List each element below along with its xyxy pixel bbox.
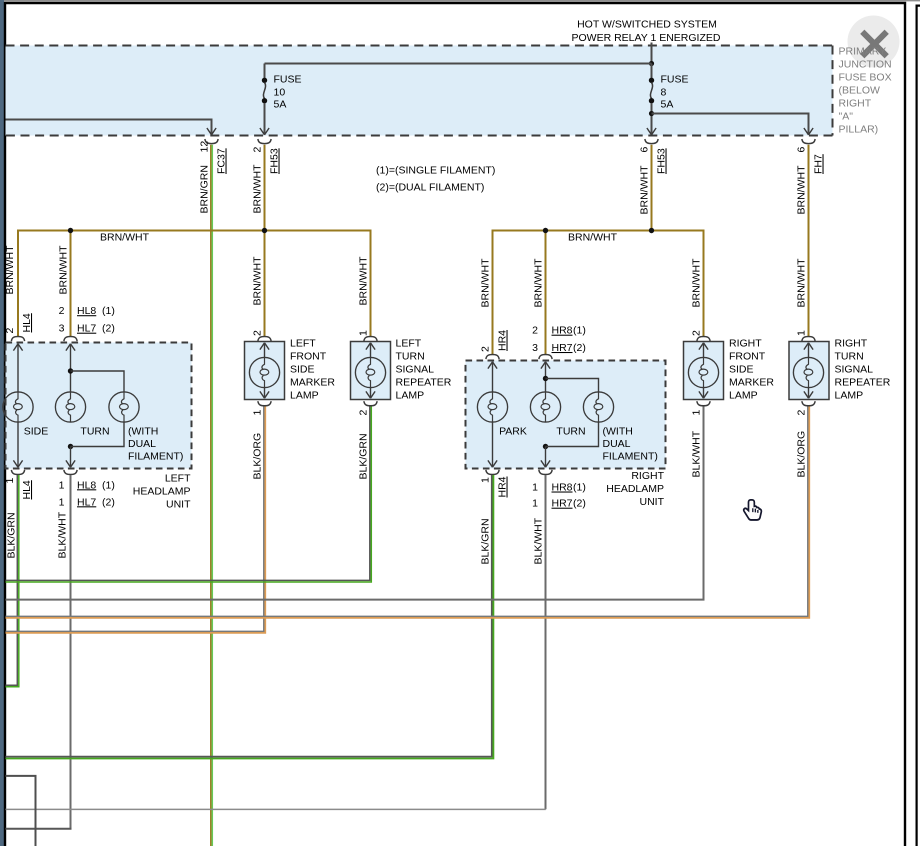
- svg-text:2: 2: [532, 325, 538, 337]
- svg-text:1: 1: [532, 482, 538, 494]
- node fuse F8 branch: [649, 111, 654, 116]
- svg-text:BRN/WHT: BRN/WHT: [568, 232, 618, 244]
- fuse F10 label: [274, 73, 302, 110]
- connector arc Lmarker bottom: [258, 401, 271, 406]
- svg-text:BLK/GRN: BLK/GRN: [358, 433, 370, 479]
- svg-text:BRN/WHT: BRN/WHT: [639, 165, 651, 215]
- svg-text:5A: 5A: [661, 98, 674, 110]
- connector arc HL8 top: [64, 337, 77, 342]
- connector FH7 arc: [802, 139, 815, 144]
- fuse F8 label: [661, 73, 689, 110]
- svg-text:(1): (1): [573, 482, 586, 494]
- pin 1 HL8 bottom line: [59, 479, 115, 491]
- arrow HL4 in: [13, 344, 22, 351]
- svg-text:1: 1: [358, 330, 370, 336]
- svg-text:2: 2: [4, 328, 16, 334]
- FH7 exit arrow: [804, 128, 813, 135]
- wire side lamp stem bottom: [17, 422, 19, 466]
- svg-text:PARK: PARK: [499, 426, 527, 438]
- arrow Rmarker out: [699, 391, 708, 398]
- svg-text:BLK/WHT: BLK/WHT: [533, 517, 545, 564]
- svg-text:HR8: HR8: [552, 482, 573, 494]
- fuse box dashed border: [6, 46, 833, 136]
- wire BLK/GRN Lrepeater: [6, 407, 372, 583]
- svg-text:BRN/WHT: BRN/WHT: [480, 258, 492, 308]
- svg-text:(2): (2): [573, 342, 586, 354]
- label right turn signal repeater lamp: [835, 338, 891, 402]
- svg-text:12: 12: [199, 141, 211, 153]
- svg-text:(2)=(DUAL FILAMENT): (2)=(DUAL FILAMENT): [376, 182, 484, 194]
- connector FH53-2 arc: [258, 139, 271, 144]
- svg-text:SIDE: SIDE: [729, 364, 754, 376]
- svg-text:UNIT: UNIT: [166, 499, 191, 511]
- svg-text:BRN/GRN: BRN/GRN: [199, 165, 211, 213]
- svg-text:1: 1: [691, 410, 703, 416]
- wire BRN/WHT HR8 drop: [545, 231, 547, 355]
- fuse box fill: [6, 46, 833, 136]
- svg-text:3: 3: [59, 323, 65, 335]
- wire BLK/WHT HR8: [545, 475, 547, 809]
- pin 1 HL7 bottom line: [59, 496, 115, 508]
- svg-text:(1): (1): [102, 305, 115, 317]
- wire fuse supply bus: [265, 63, 652, 65]
- svg-text:HL8: HL8: [77, 479, 96, 491]
- svg-text:HL4: HL4: [21, 480, 33, 499]
- wire park lamp stem bottom: [492, 422, 494, 466]
- svg-text:RIGHT: RIGHT: [835, 338, 868, 350]
- svg-text:(2): (2): [573, 498, 586, 510]
- arrow HL4 out: [13, 460, 22, 467]
- svg-text:FILAMENT): FILAMENT): [128, 451, 183, 463]
- connector arc Rrepeater top: [802, 337, 815, 342]
- wire left feed: [6, 120, 212, 135]
- fuse F10 5A: [262, 64, 267, 135]
- pin 2 HR8 line: [532, 325, 586, 337]
- wire BRN/WHT FH53-6 drop: [651, 145, 653, 231]
- svg-text:(BELOW: (BELOW: [839, 85, 881, 97]
- svg-text:BLK/WHT: BLK/WHT: [691, 430, 703, 477]
- svg-text:DUAL: DUAL: [603, 438, 631, 450]
- svg-text:BRN/WHT: BRN/WHT: [796, 258, 808, 308]
- svg-text:MARKER: MARKER: [729, 377, 774, 389]
- svg-text:FRONT: FRONT: [729, 351, 766, 363]
- svg-text:6: 6: [639, 147, 651, 153]
- lamp TURN: [55, 392, 85, 422]
- svg-text:FUSE BOX: FUSE BOX: [839, 72, 892, 84]
- arrow Rrepeater in: [804, 343, 813, 350]
- svg-text:BRN/WHT: BRN/WHT: [691, 258, 703, 308]
- connector arc HR8 top: [539, 355, 552, 360]
- svg-text:POWER RELAY 1 ENERGIZED: POWER RELAY 1 ENERGIZED: [572, 32, 721, 44]
- connector arc Lrepeater top: [364, 337, 377, 342]
- node turn top right: [543, 376, 548, 381]
- svg-text:(2): (2): [102, 496, 115, 508]
- svg-text:BRN/WHT: BRN/WHT: [358, 256, 370, 306]
- node left bus FH53: [262, 228, 267, 233]
- svg-text:BRN/WHT: BRN/WHT: [58, 245, 70, 295]
- svg-text:1: 1: [59, 496, 65, 508]
- svg-text:FH53: FH53: [656, 148, 668, 174]
- label right front side marker lamp: [729, 338, 774, 402]
- svg-text:FILAMENT): FILAMENT): [603, 451, 658, 463]
- wire BRN/WHT FH7 drop: [808, 145, 810, 336]
- svg-text:LAMP: LAMP: [835, 390, 864, 402]
- wire dual link top: [71, 371, 125, 392]
- svg-text:LAMP: LAMP: [290, 390, 319, 402]
- svg-text:LEFT: LEFT: [165, 473, 191, 485]
- wire turn lamp stem right: [545, 363, 547, 392]
- svg-text:TURN: TURN: [835, 351, 864, 363]
- svg-text:2: 2: [59, 305, 65, 317]
- svg-text:1: 1: [532, 498, 538, 510]
- connector arc HL4 bottom: [11, 470, 24, 475]
- fuse F8 exit arrow: [647, 128, 656, 135]
- wire dual link bottom right: [546, 422, 599, 446]
- svg-text:BLK/GRN: BLK/GRN: [6, 512, 18, 558]
- svg-text:HL8: HL8: [77, 305, 96, 317]
- svg-text:(1)=(SINGLE FILAMENT): (1)=(SINGLE FILAMENT): [376, 165, 495, 177]
- arrow Rmarker in: [699, 343, 708, 350]
- arrow HR4 out: [488, 460, 497, 467]
- wire turn right stem bottom: [545, 447, 547, 467]
- pin 3 HR7 line: [532, 342, 586, 354]
- wire relay feed: [651, 43, 653, 64]
- wire BLK/WHT HL8: [70, 475, 72, 829]
- connector arc Rrepeater bottom: [802, 401, 815, 406]
- svg-text:1: 1: [796, 330, 808, 336]
- svg-text:REPEATER: REPEATER: [396, 377, 452, 389]
- arrow Rrepeater out: [804, 391, 813, 398]
- svg-text:SIDE: SIDE: [290, 364, 315, 376]
- right front side marker lamp box: [684, 342, 724, 400]
- arrow HR8 out: [541, 460, 550, 467]
- lamp Lrepeater internals: [355, 344, 385, 398]
- svg-text:HL7: HL7: [77, 496, 96, 508]
- svg-text:SIDE: SIDE: [24, 426, 49, 438]
- svg-text:10: 10: [274, 86, 286, 98]
- svg-text:TURN: TURN: [80, 426, 109, 438]
- pin 1 HR7 bottom line: [532, 498, 586, 510]
- connector arc Rmarker bottom: [697, 401, 710, 406]
- svg-text:MARKER: MARKER: [290, 377, 335, 389]
- wire BRN/WHT FH53-2 drop: [264, 145, 266, 336]
- svg-text:FH53: FH53: [269, 148, 281, 174]
- svg-text:FUSE: FUSE: [661, 73, 689, 85]
- node left bus HL8: [68, 228, 73, 233]
- fuse F8 5A: [649, 64, 654, 135]
- label right headlamp unit: [606, 470, 664, 508]
- left turn signal repeater lamp box: [351, 342, 391, 400]
- wire dual link top right: [546, 379, 599, 392]
- svg-text:2: 2: [796, 410, 808, 416]
- svg-text:LAMP: LAMP: [729, 390, 758, 402]
- svg-text:DUAL: DUAL: [128, 438, 156, 450]
- right turn signal repeater lamp box: [789, 342, 829, 400]
- wire BLK/GRN HR4: [6, 475, 494, 759]
- svg-text:HR8: HR8: [552, 325, 573, 337]
- left headlamp unit box: [6, 343, 192, 469]
- node right bus HR8: [543, 228, 548, 233]
- svg-text:1: 1: [480, 477, 492, 483]
- svg-text:BLK/WHT: BLK/WHT: [57, 511, 69, 558]
- svg-text:PRIMARY: PRIMARY: [839, 46, 887, 58]
- svg-text:FUSE: FUSE: [274, 73, 302, 85]
- top window hairline: [0, 0, 920, 1]
- svg-text:1: 1: [59, 479, 65, 491]
- node right bus FH53: [649, 228, 654, 233]
- connector arc Lmarker top: [258, 337, 271, 342]
- svg-text:(2): (2): [102, 323, 115, 335]
- svg-text:BRN/WHT: BRN/WHT: [252, 256, 264, 306]
- wire turn lamp stem: [70, 345, 72, 392]
- svg-text:BRN/WHT: BRN/WHT: [533, 258, 545, 308]
- left slate bar: [0, 0, 4, 846]
- lamp Rrepeater internals: [793, 344, 823, 398]
- label left front side marker lamp: [290, 338, 335, 402]
- fuse F10 exit arrow: [260, 128, 269, 135]
- arrow HL8 in: [66, 344, 75, 351]
- arrow Lrepeater in: [366, 343, 375, 350]
- svg-text:2: 2: [358, 410, 370, 416]
- svg-text:HL7: HL7: [77, 323, 96, 335]
- wire branch to FH7: [652, 114, 809, 135]
- svg-text:HEADLAMP: HEADLAMP: [133, 486, 191, 498]
- svg-text:SIGNAL: SIGNAL: [396, 364, 435, 376]
- arrow Lmarker out: [260, 391, 269, 398]
- svg-text:BRN/WHT: BRN/WHT: [100, 232, 150, 244]
- fuse box caption: [839, 46, 892, 136]
- connector arc HL8 bottom: [64, 470, 77, 475]
- connector arc HR4 top: [486, 355, 499, 360]
- svg-text:5A: 5A: [274, 98, 287, 110]
- pin 3 HL7 line: [59, 323, 115, 335]
- connector arc Rmarker top: [697, 337, 710, 342]
- lamp TURN right: [530, 392, 560, 422]
- lamp dual filament left: [109, 392, 139, 422]
- svg-text:1: 1: [4, 478, 16, 484]
- label with dual filament left: [128, 426, 183, 463]
- svg-text:BLK/ORG: BLK/ORG: [796, 431, 808, 478]
- wire dual link bottom: [71, 422, 125, 446]
- svg-text:(1): (1): [573, 325, 586, 337]
- right headlamp unit box: [466, 361, 666, 469]
- node relay junction: [649, 61, 654, 66]
- wire BLK/GRN HL4: [6, 475, 19, 687]
- wire BRN/WHT HL8 drop: [70, 231, 72, 337]
- arrow HR8 in: [541, 362, 550, 369]
- lamp Lmarker internals: [249, 344, 279, 398]
- svg-text:(WITH: (WITH: [128, 426, 158, 438]
- lamp SIDE: [3, 392, 33, 422]
- wire BLK/ORG Rrepeater: [6, 407, 810, 618]
- node turn bottom: [68, 444, 73, 449]
- arrow HR4 in: [488, 362, 497, 369]
- label left headlamp unit: [133, 473, 191, 511]
- connector FH53-6 arc: [645, 139, 658, 144]
- connector arc Lrepeater bottom: [364, 401, 377, 406]
- svg-text:LEFT: LEFT: [396, 338, 422, 350]
- svg-text:FC37: FC37: [216, 148, 228, 174]
- svg-text:2: 2: [252, 147, 264, 153]
- svg-text:BLK/ORG: BLK/ORG: [252, 433, 264, 480]
- svg-text:RIGHT: RIGHT: [729, 338, 762, 350]
- svg-text:UNIT: UNIT: [640, 496, 665, 508]
- svg-text:2: 2: [691, 330, 703, 336]
- wire BRN/WHT left bus: [18, 231, 371, 337]
- svg-text:2: 2: [252, 330, 264, 336]
- wire park lamp stem: [492, 363, 494, 392]
- svg-text:(WITH: (WITH: [603, 426, 633, 438]
- connector arc HR4 bottom: [486, 470, 499, 475]
- svg-text:6: 6: [796, 147, 808, 153]
- FC37 exit arrow: [207, 128, 216, 135]
- svg-text:JUNCTION: JUNCTION: [839, 59, 892, 71]
- connector arc HL4 top: [11, 337, 24, 342]
- arrow HL8 out: [66, 460, 75, 467]
- svg-text:HL4: HL4: [21, 313, 33, 332]
- svg-text:LEFT: LEFT: [290, 338, 316, 350]
- svg-text:BLK/GRN: BLK/GRN: [480, 518, 492, 564]
- label left turn signal repeater lamp: [396, 338, 452, 402]
- svg-text:3: 3: [532, 342, 538, 354]
- svg-text:RIGHT: RIGHT: [839, 98, 872, 110]
- svg-text:(1): (1): [102, 479, 115, 491]
- svg-text:"A": "A": [839, 111, 854, 123]
- svg-text:FRONT: FRONT: [290, 351, 327, 363]
- pin 2 HL8 line: [59, 305, 115, 317]
- svg-text:TURN: TURN: [556, 426, 585, 438]
- svg-text:2: 2: [480, 346, 492, 352]
- left front side marker lamp box: [245, 342, 285, 400]
- svg-text:HR4: HR4: [497, 476, 509, 497]
- svg-text:TURN: TURN: [396, 351, 425, 363]
- wire BLK/WHT Rmarker: [6, 407, 704, 600]
- svg-text:RIGHT: RIGHT: [631, 470, 664, 482]
- wire side lamp stem: [17, 345, 19, 392]
- node turn top: [68, 368, 73, 373]
- node turn bottom right: [543, 444, 548, 449]
- pin 1 HR8 bottom line: [532, 482, 586, 494]
- svg-text:PILLAR): PILLAR): [839, 124, 879, 136]
- svg-text:BRN/WHT: BRN/WHT: [4, 245, 16, 295]
- wire BRN/GRN vertical FC37: [211, 145, 213, 846]
- lamp PARK: [477, 392, 507, 422]
- lamp dual filament right: [583, 392, 613, 422]
- svg-text:8: 8: [661, 86, 667, 98]
- svg-text:HR7: HR7: [552, 498, 573, 510]
- second page frame border: [917, 6, 920, 846]
- svg-text:SIGNAL: SIGNAL: [835, 364, 874, 376]
- wire stub lower left: [6, 776, 36, 846]
- svg-text:REPEATER: REPEATER: [835, 377, 891, 389]
- arrow Lrepeater out: [366, 391, 375, 398]
- label with dual filament right: [603, 426, 658, 463]
- wire BLK/ORG Lmarker: [6, 407, 266, 633]
- svg-text:BRN/WHT: BRN/WHT: [252, 164, 264, 214]
- svg-text:HOT W/SWITCHED SYSTEM: HOT W/SWITCHED SYSTEM: [577, 19, 717, 31]
- lamp Rmarker internals: [688, 344, 718, 398]
- svg-text:BRN/WHT: BRN/WHT: [796, 165, 808, 215]
- svg-text:FH7: FH7: [813, 154, 825, 174]
- svg-text:HR7: HR7: [552, 342, 573, 354]
- cursor: [744, 500, 762, 520]
- wire turn lamp stem bottom: [70, 447, 72, 467]
- svg-text:HR4: HR4: [497, 330, 509, 351]
- arrow Lmarker in: [260, 343, 269, 350]
- svg-text:LAMP: LAMP: [396, 390, 425, 402]
- connector FC37 arc: [205, 139, 218, 144]
- close button: [848, 16, 900, 68]
- svg-text:1: 1: [252, 410, 264, 416]
- wire BRN/WHT right bus: [493, 231, 704, 355]
- connector arc HR8 bottom: [539, 470, 552, 475]
- svg-text:HEADLAMP: HEADLAMP: [606, 483, 664, 495]
